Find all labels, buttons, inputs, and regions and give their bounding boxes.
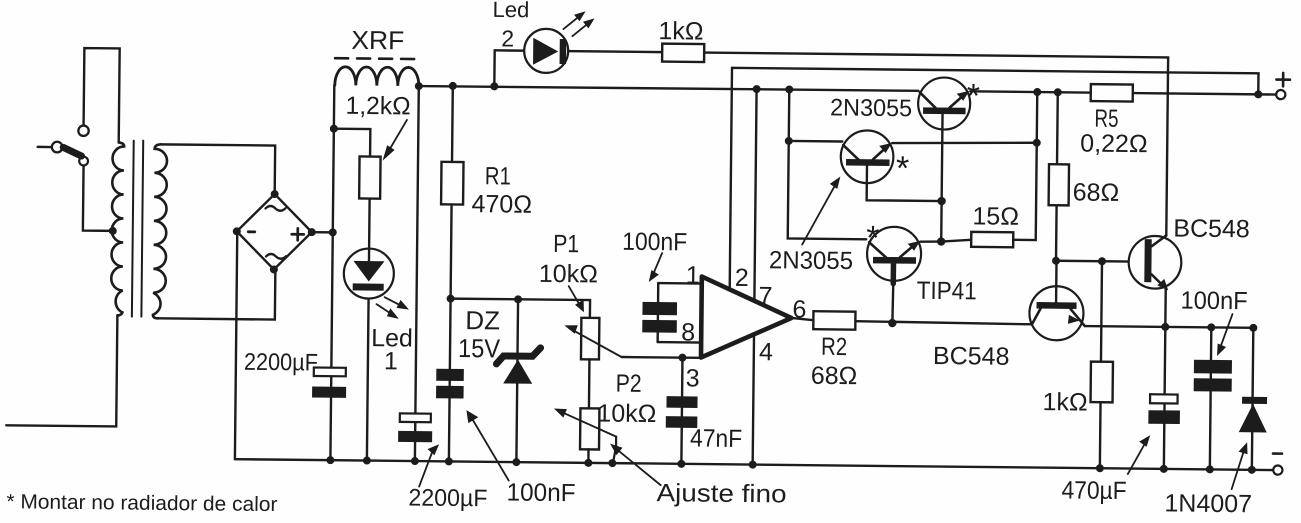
svg-text:XRF: XRF <box>351 25 404 56</box>
wire: 100nF right column <box>1210 327 1211 469</box>
svg-text:2200µF: 2200µF <box>408 484 487 512</box>
node: pin3 / 47nF junction <box>678 354 686 362</box>
wire: middle 2N3055 collector down and right <box>867 165 942 201</box>
zener diode DZ 15V <box>496 347 540 383</box>
wire: collectors column x=941 <box>941 114 942 242</box>
svg-text:0,22Ω: 0,22Ω <box>1080 129 1148 158</box>
svg-text:100nF: 100nF <box>622 228 687 257</box>
node: collectors junction <box>937 197 945 205</box>
label BC548 (lower) <box>933 342 1010 371</box>
op-amp U1 <box>701 277 792 359</box>
svg-text:1kΩ: 1kΩ <box>658 17 703 45</box>
wire: Led2 line to 1k resistor <box>495 50 662 52</box>
svg-text:Led: Led <box>492 0 529 22</box>
node: rail / XRF right end <box>415 82 423 90</box>
LED Led1 <box>342 248 410 461</box>
svg-text:2200µF: 2200µF <box>244 349 318 377</box>
node: column A / bridge output junction <box>329 228 337 236</box>
node: bottom rail / P2 <box>584 459 592 467</box>
potentiometer P1 10k <box>564 318 622 360</box>
svg-text:15Ω: 15Ω <box>972 202 1019 230</box>
svg-text:10kΩ: 10kΩ <box>597 399 656 428</box>
wire: 1k to BC548 collector drop <box>702 53 1168 236</box>
svg-text:100nF: 100nF <box>506 479 575 508</box>
label 2200uF #1 <box>244 349 318 377</box>
resistor 1,2k ohm <box>359 156 381 248</box>
node: bottom rail / 100nF right <box>1206 465 1214 473</box>
resistor R1 470 ohm <box>441 162 463 205</box>
resistor 68 ohm <box>1049 164 1069 205</box>
node: rail / bases column <box>785 85 793 93</box>
wire: bases column from rail <box>788 89 868 239</box>
wire: 1N4007 column <box>1252 328 1253 470</box>
svg-text:DZ: DZ <box>465 305 500 335</box>
node: rail / 15 ohm column <box>1033 88 1041 96</box>
svg-text:1: 1 <box>686 261 700 289</box>
node: rail / + corner <box>1254 90 1262 98</box>
wire: pin 2 feedback line up and over to output <box>730 68 1259 295</box>
switch S1 <box>52 125 89 165</box>
svg-text:8: 8 <box>681 318 695 346</box>
label 47nF <box>690 424 742 453</box>
svg-text:47nF: 47nF <box>690 424 742 453</box>
node: bottom rail / 2200uF#2 <box>411 457 419 465</box>
wire: middle 2N3055 emitter line to 15 ohm column <box>892 141 1037 144</box>
node: bottom rail / Led1 <box>363 457 371 465</box>
terminal + output <box>1276 73 1290 99</box>
node: bottom rail / DZ <box>512 458 520 466</box>
node: bottom rail / 1N4007 <box>1248 466 1256 474</box>
svg-text:2: 2 <box>735 264 749 292</box>
node: TIP41 emitter / 15 ohm junction <box>937 237 945 245</box>
node: bottom rail / pin 4 <box>749 461 757 469</box>
node: R2 line / TIP41 collector <box>888 319 896 327</box>
transformer T1 primary winding <box>111 142 124 315</box>
potentiometer P2 10k (Ajuste fino) <box>553 408 616 464</box>
svg-text:68Ω: 68Ω <box>811 362 858 390</box>
svg-text:P2: P2 <box>616 370 642 398</box>
svg-text:7: 7 <box>758 282 772 310</box>
node: rail / Led2 branch <box>490 82 498 90</box>
wire: P1 wiper line to op-amp pin 3 <box>621 356 700 359</box>
wire: Led2 branch drop from rail <box>493 50 496 86</box>
label 2N3055 (top label) <box>830 94 912 122</box>
svg-text:10kΩ: 10kΩ <box>539 260 598 289</box>
wire: switch lower throw to primary junction <box>83 166 113 231</box>
svg-text:1N4007: 1N4007 <box>1164 489 1252 518</box>
bridge rectifier B1 <box>236 194 312 270</box>
wire: top rail right part (emitter rail to + terminal) <box>970 91 1276 94</box>
wire: 470uF column <box>1164 327 1165 469</box>
wire: pin 7 up to rail <box>754 89 756 301</box>
resistor 1k (Led2) <box>662 44 704 62</box>
svg-text:TIP41: TIP41 <box>917 277 977 306</box>
svg-text:R5: R5 <box>1094 105 1118 133</box>
wire: top unregulated rail y=88 <box>419 86 918 92</box>
node: emitter line / 470uF junction <box>1161 323 1169 331</box>
svg-text:470Ω: 470Ω <box>471 190 532 219</box>
wire: column D (R1 / 100nF column) <box>449 86 453 461</box>
node: bridge top vertex <box>271 190 279 198</box>
wire: pin 4 down to bottom rail <box>753 334 754 464</box>
label 1N4007 with arrow <box>1164 441 1252 518</box>
node: bridge bottom vertex <box>270 265 278 273</box>
node: column A / 1,2k branch junction <box>330 125 338 133</box>
label 68Ohm <box>1073 178 1120 206</box>
label TIP41 <box>917 277 977 306</box>
wire: bridge minus vertex down to bottom rail <box>235 231 237 459</box>
svg-text:Ajuste fino: Ajuste fino <box>656 479 786 508</box>
wire: base link line (68ohm to right BC548) <box>1056 260 1144 263</box>
svg-text:BC548: BC548 <box>1173 214 1250 243</box>
node: DZ top junction <box>514 295 522 303</box>
wire: emitter line y=321.5 to diode column <box>1085 326 1253 328</box>
wire: 1,2k branch from column A <box>334 129 371 157</box>
resistor 1k (right) <box>1091 362 1113 403</box>
label P2 10kOhm <box>597 369 657 428</box>
node: 68 ohm / lower BC548 base junction <box>1052 257 1060 265</box>
transistor Q5 BC548 (right) <box>1128 235 1182 327</box>
node: switch wire / primary coil junction <box>109 227 117 235</box>
wire: middle 2N3055 base branch <box>789 140 842 143</box>
svg-text:*: * <box>967 77 981 115</box>
svg-text:*: * <box>896 150 910 188</box>
pin label 6 <box>792 295 806 323</box>
label R2 68Ohm <box>811 333 858 390</box>
pin label 4 <box>759 338 773 366</box>
wire: bridge plus vertex to column A <box>312 231 333 234</box>
svg-text:4: 4 <box>759 338 773 366</box>
transformer T1 core <box>132 141 143 317</box>
svg-text:P1: P1 <box>553 230 579 258</box>
transistor Q3 TIP41 <box>866 227 941 324</box>
transistor Q1 2N3055 (top) <box>918 77 971 130</box>
wire: DZ line from R1 to P1 <box>450 299 590 318</box>
label 100nF (right) with arrow <box>1180 287 1248 357</box>
asterisk on top 2N3055 <box>967 77 981 115</box>
node: rail / R1 column <box>449 82 457 90</box>
transistor Q2 2N3055 (middle) <box>841 130 894 183</box>
node: bases column tee <box>785 137 793 145</box>
svg-text:100nF: 100nF <box>1180 287 1247 316</box>
resistor R5 0,22 ohm <box>1091 84 1133 101</box>
LED Led2 <box>524 11 595 74</box>
wire: column C (XRF right down to 2200uF#2) <box>415 86 419 461</box>
wire: switch upper throw to primary top <box>83 48 119 142</box>
node: emitter line / 15 ohm column <box>1033 139 1041 147</box>
wire: secondary bottom to bridge bottom vertex <box>158 268 275 319</box>
asterisk on middle 2N3055 <box>896 150 910 188</box>
node: bottom rail / 470uF <box>1160 465 1168 473</box>
label Ajuste fino with arrow <box>609 444 787 509</box>
svg-text:R1: R1 <box>485 162 511 190</box>
label 1kOhm (top) <box>658 17 703 45</box>
capacitor 2200uF #2 (electrolytic) <box>398 413 432 442</box>
label XRF <box>351 25 404 56</box>
wire: P1 bottom to P2 top <box>588 359 591 408</box>
resistor R2 68 ohm <box>813 311 855 329</box>
svg-text:68Ω: 68Ω <box>1073 178 1120 206</box>
node: rail / 68 ohm column <box>1054 88 1062 96</box>
svg-text:1,2kΩ: 1,2kΩ <box>345 92 410 121</box>
node: R1 bottom / DZ line junction <box>447 295 455 303</box>
svg-text:1: 1 <box>384 347 398 375</box>
pin label 3 <box>686 364 700 392</box>
node: bottom rail / 2200uF#1 <box>326 456 334 464</box>
label Led 1 <box>371 324 413 375</box>
label R1 470Ohm <box>471 162 532 219</box>
svg-text:2N3055: 2N3055 <box>830 94 912 122</box>
svg-text:*: * <box>866 219 880 257</box>
label P1 10kOhm with arrow <box>538 230 598 313</box>
label DZ 15V <box>458 305 501 363</box>
terminal - output <box>1273 454 1283 475</box>
label 470uF with arrow <box>1061 434 1150 505</box>
node: bottom rail / 1k right <box>1096 464 1104 472</box>
capacitor 100nF #1 (ceramic) <box>436 369 464 399</box>
svg-text:R2: R2 <box>821 333 847 361</box>
svg-text:15V: 15V <box>458 333 501 363</box>
label 2200uF #2 with arrow <box>408 444 488 512</box>
label 1kOhm (right) <box>1042 388 1087 416</box>
wire: mains input stub to switch <box>38 146 52 149</box>
wire: 47nF column <box>681 358 682 464</box>
wire: R2 output line to lower BC548 <box>855 321 1032 324</box>
diode 1N4007 <box>1239 397 1267 433</box>
capacitor 100nF #3 (ceramic) <box>1194 360 1232 392</box>
svg-text:BC548: BC548 <box>933 342 1010 371</box>
label 1,2kOhm with arrow <box>345 92 411 161</box>
wire: 1k right column <box>1100 261 1102 468</box>
node: emitter line / 100nF junction <box>1207 323 1215 331</box>
svg-text:2N3055: 2N3055 <box>769 246 853 275</box>
pin label 7 <box>758 282 772 310</box>
node: bridge left vertex <box>233 227 241 235</box>
label Led 2 <box>492 0 529 52</box>
transformer T1 secondary winding <box>153 144 167 318</box>
wire: bottom rail <box>235 459 1273 470</box>
svg-text:470µF: 470µF <box>1061 476 1126 505</box>
node: bridge right vertex <box>308 228 316 236</box>
capacitor 470uF (electrolytic) <box>1148 394 1180 424</box>
node: emitter line / 1N4007 junction <box>1249 324 1257 332</box>
resistor 15 ohm <box>941 91 1037 247</box>
label 100nF #1 with arrow <box>465 410 576 507</box>
pin label 8 <box>681 318 695 346</box>
wire: 68 ohm column <box>1056 92 1058 260</box>
label BC548 (right) <box>1173 214 1250 243</box>
capacitor 47nF <box>666 396 698 428</box>
svg-text:1kΩ: 1kΩ <box>1042 388 1087 416</box>
node: bottom rail / P2 wiper <box>608 459 616 467</box>
pin label 2 <box>735 264 749 292</box>
node: bottom rail / 100nF#1 <box>445 457 453 465</box>
wire: secondary top to bridge top vertex <box>160 144 276 194</box>
svg-text:3: 3 <box>686 364 700 392</box>
wire: P2 bottom to rail <box>587 449 590 462</box>
wire: mains bottom lead <box>6 314 117 426</box>
wire: column A (XRF left end down to bottom rail) <box>330 85 334 460</box>
node: rail / pin 7 <box>753 85 761 93</box>
label 2N3055 (bottom label) with arrow <box>769 176 854 275</box>
asterisk on TIP41 <box>866 219 880 257</box>
inductor XRF <box>335 58 419 86</box>
transistor Q4 BC548 (lower) <box>1029 260 1085 340</box>
node: bottom rail / 47nF <box>677 460 685 468</box>
node: base link / 1k column junction <box>1098 257 1106 265</box>
svg-text:2: 2 <box>501 25 514 51</box>
svg-text:* Montar no radiador de calor: * Montar no radiador de calor <box>6 490 277 516</box>
label 15Ohm <box>972 202 1019 230</box>
wire: op-amp offset cap column pins 1-8 <box>658 283 702 342</box>
label R5 0,22Ohm <box>1080 105 1148 159</box>
wire: op-amp output stub pin 6 <box>791 318 813 320</box>
capacitor 100nF #2 (pins 1-8) <box>642 302 677 333</box>
wire: column E zener DZ <box>516 299 518 462</box>
note: Montar no radiador de calor <box>6 490 277 516</box>
pin label 1 <box>686 261 700 289</box>
label 100nF #2 with arrow <box>622 228 688 283</box>
capacitor 2200uF #1 (electrolytic) <box>312 367 346 397</box>
